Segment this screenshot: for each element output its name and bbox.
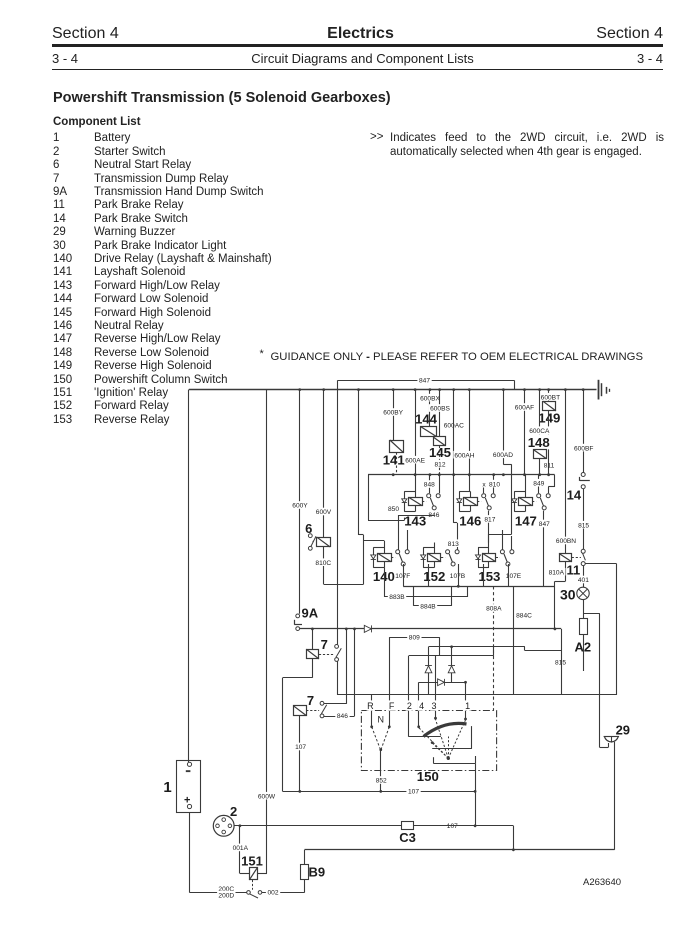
svg-text:852: 852 <box>376 778 387 785</box>
svg-text:849: 849 <box>533 480 544 487</box>
svg-text:C3: C3 <box>399 830 416 845</box>
svg-text:600AH: 600AH <box>454 452 474 459</box>
svg-text:1: 1 <box>163 779 171 796</box>
svg-text:810A: 810A <box>549 569 565 576</box>
svg-text:600AF: 600AF <box>515 405 534 412</box>
svg-text:146: 146 <box>459 514 481 529</box>
svg-text:815: 815 <box>578 522 589 529</box>
svg-text:848: 848 <box>424 482 435 489</box>
svg-text:401: 401 <box>578 577 589 584</box>
svg-text:883B: 883B <box>389 594 405 601</box>
svg-text:810: 810 <box>489 481 500 488</box>
svg-text:F: F <box>389 701 395 711</box>
svg-text:812: 812 <box>434 461 445 468</box>
svg-text:2: 2 <box>230 804 237 819</box>
svg-text:850: 850 <box>388 506 399 513</box>
svg-text:141: 141 <box>383 452 405 467</box>
svg-text:600AE: 600AE <box>405 457 425 464</box>
svg-text:A2: A2 <box>574 640 591 655</box>
svg-text:810C: 810C <box>315 560 331 567</box>
svg-text:811: 811 <box>544 463 555 470</box>
svg-text:884C: 884C <box>516 613 532 620</box>
svg-text:4: 4 <box>419 701 424 711</box>
svg-text:600Y: 600Y <box>292 503 308 510</box>
svg-text:147: 147 <box>515 514 537 529</box>
svg-text:1: 1 <box>465 701 470 711</box>
svg-text:144: 144 <box>415 412 438 427</box>
svg-text:001A: 001A <box>233 845 249 852</box>
svg-text:107B: 107B <box>450 573 466 580</box>
svg-text:600BF: 600BF <box>574 445 593 452</box>
svg-text:817: 817 <box>484 517 495 524</box>
svg-text:151: 151 <box>241 854 263 869</box>
svg-text:148: 148 <box>528 435 550 450</box>
svg-text:9A: 9A <box>301 606 318 621</box>
svg-text:809: 809 <box>409 635 420 642</box>
svg-text:600W: 600W <box>258 793 276 800</box>
svg-text:600BX: 600BX <box>420 395 440 402</box>
svg-text:847: 847 <box>539 521 550 528</box>
svg-text:14: 14 <box>567 488 582 503</box>
svg-text:152: 152 <box>423 569 445 584</box>
svg-text:600BY: 600BY <box>383 410 403 417</box>
svg-text:884B: 884B <box>420 604 436 611</box>
svg-text:002: 002 <box>267 890 278 897</box>
svg-text:3: 3 <box>431 701 436 711</box>
svg-text:600V: 600V <box>316 509 332 516</box>
svg-text:846: 846 <box>337 713 348 720</box>
svg-text:11: 11 <box>567 563 581 578</box>
svg-text:200D: 200D <box>218 892 234 899</box>
svg-text:7: 7 <box>307 693 314 708</box>
svg-text:149: 149 <box>538 411 560 426</box>
svg-text:107F: 107F <box>395 573 410 580</box>
svg-text:600BN: 600BN <box>556 538 576 545</box>
svg-text:847: 847 <box>419 378 430 385</box>
svg-text:30: 30 <box>560 586 576 602</box>
svg-text:7: 7 <box>321 637 328 652</box>
svg-text:815: 815 <box>555 659 566 666</box>
svg-text:140: 140 <box>373 569 395 584</box>
svg-text:R: R <box>367 701 374 711</box>
svg-text:2: 2 <box>407 701 412 711</box>
svg-text:813: 813 <box>448 541 459 548</box>
svg-text:600CA: 600CA <box>529 428 550 435</box>
svg-text:29: 29 <box>616 722 630 737</box>
svg-text:N: N <box>377 715 384 725</box>
svg-text:600BT: 600BT <box>541 394 560 401</box>
svg-text:600BS: 600BS <box>430 406 450 413</box>
svg-text:107: 107 <box>295 744 306 751</box>
svg-text:600AD: 600AD <box>493 452 513 459</box>
svg-text:153: 153 <box>478 569 500 584</box>
svg-text:B9: B9 <box>308 865 325 880</box>
svg-text:150: 150 <box>417 769 439 784</box>
svg-text:808A: 808A <box>486 606 502 613</box>
svg-text:107: 107 <box>447 823 458 830</box>
svg-text:x: x <box>482 481 486 488</box>
svg-text:107: 107 <box>408 789 419 796</box>
